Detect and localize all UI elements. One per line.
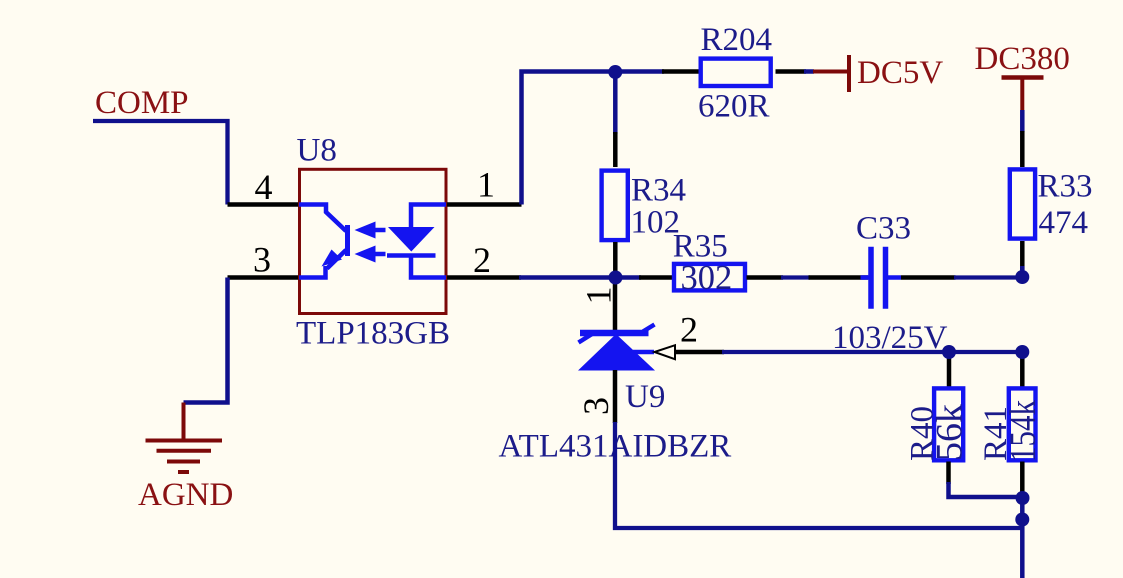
wire U9 anode pin <box>613 370 618 423</box>
svg-text:C33: C33 <box>856 211 911 247</box>
U9 reference arrow <box>655 345 676 359</box>
svg-text:302: 302 <box>681 259 733 297</box>
wire R33 bottom pin <box>1020 241 1025 270</box>
svg-text:154k: 154k <box>1003 400 1044 462</box>
power port DC380 bar <box>1002 75 1044 80</box>
U9 cathode bar left tick <box>579 334 593 343</box>
wire R41 bottom pin <box>1020 462 1025 494</box>
power port DC380 stem <box>1020 78 1024 111</box>
svg-text:AGND: AGND <box>138 477 233 513</box>
resistor R33 <box>1010 169 1035 238</box>
svg-text:56k: 56k <box>930 403 971 461</box>
capacitor C33 plate 2 <box>883 247 889 309</box>
U8 light arrow 2 shaft <box>373 252 386 257</box>
ground AGND bar3 <box>167 460 200 464</box>
wire U9 anode to bottom rail <box>615 422 1022 528</box>
wire R34 top pin link <box>613 72 618 134</box>
U9 triangle <box>578 334 655 371</box>
wire bottom vertical <box>1020 492 1025 578</box>
junction dot ref rail R41 <box>1015 345 1029 359</box>
U9 reference lead <box>633 350 654 355</box>
U8 phototransistor emitter wire <box>299 266 326 278</box>
wire U9 ref pin <box>675 350 724 355</box>
U8 phototransistor emitter <box>327 250 346 269</box>
svg-text:R34: R34 <box>631 173 686 209</box>
wire U8 pin4 stub <box>228 202 300 207</box>
resistor R40 <box>934 388 963 460</box>
ground AGND bar2 <box>157 449 212 453</box>
svg-text:1: 1 <box>579 287 619 305</box>
svg-text:U8: U8 <box>297 133 337 169</box>
svg-text:TLP183GB: TLP183GB <box>296 316 450 352</box>
shunt regulator U9 cathode bar <box>580 330 649 337</box>
wire R35 left pin <box>639 275 673 280</box>
svg-text:102: 102 <box>631 205 681 241</box>
U8 LED anode wire <box>411 205 446 229</box>
wire U8 pin3 stub <box>228 275 300 280</box>
ground AGND bar4 <box>178 470 189 474</box>
junction dot node B <box>1015 513 1029 527</box>
svg-text:1: 1 <box>477 165 495 205</box>
ground AGND bar1 <box>146 439 223 443</box>
wire R35 right pin <box>747 275 784 280</box>
wire R34 top pin <box>613 132 618 167</box>
svg-text:2: 2 <box>680 310 698 350</box>
wire R204 right pin <box>776 69 807 74</box>
ground AGND stem <box>182 403 186 440</box>
wire R41 top pin <box>1020 353 1025 391</box>
U9 cathode bar right tick <box>643 325 655 332</box>
wire R40 to node <box>949 482 1023 497</box>
wire C33 to R33 node <box>954 275 1022 279</box>
wire U8 pin1 stub <box>447 202 522 207</box>
U8 LED cathode bar <box>387 253 436 258</box>
svg-text:U9: U9 <box>625 379 665 415</box>
wire R204 left pin <box>662 69 700 74</box>
wire R34 bottom pin <box>613 242 618 278</box>
svg-text:4: 4 <box>255 167 273 207</box>
resistor R34 <box>602 171 628 241</box>
U8 light arrow 1 head <box>355 222 376 239</box>
wire DC380 to R33 <box>1020 110 1025 132</box>
svg-text:R204: R204 <box>701 22 773 58</box>
U8 phototransistor collector <box>299 205 346 232</box>
U8 light arrow 1 shaft <box>373 228 386 233</box>
wire stub to DC5V <box>804 69 814 74</box>
svg-text:DC380: DC380 <box>975 41 1070 77</box>
svg-text:474: 474 <box>1039 205 1089 241</box>
U8 phototransistor emitter arrow <box>322 250 343 267</box>
wire C33 left pin <box>809 275 869 280</box>
wire C33 right pin <box>901 275 956 280</box>
wire R40 bottom pin <box>946 462 951 485</box>
U8 light arrow 2 head <box>355 246 376 263</box>
wire R33 top pin <box>1020 131 1025 167</box>
svg-text:3: 3 <box>253 240 271 280</box>
wire COMP to U8 pin 4 <box>93 121 228 205</box>
wire ref rail <box>722 350 1022 354</box>
resistor R35 <box>674 264 745 291</box>
wire pin1 riser to top rail <box>522 72 616 205</box>
U8 LED cathode wire <box>411 256 446 278</box>
svg-text:DC5V: DC5V <box>857 55 943 91</box>
capacitor C33 pin stub left <box>861 275 869 280</box>
optocoupler U8 body <box>300 169 447 313</box>
power port DC5V lead <box>813 70 849 74</box>
wire R40 top pin <box>947 353 952 391</box>
svg-text:620R: 620R <box>698 89 770 125</box>
resistor R204 <box>701 59 771 86</box>
svg-text:R33: R33 <box>1038 169 1093 205</box>
wire top rail to R204 <box>615 69 664 74</box>
wire R33 to mid rail <box>1020 266 1025 277</box>
wire U8 pin2 stub <box>447 275 521 280</box>
U8 LED triangle <box>388 227 435 252</box>
svg-text:3: 3 <box>576 397 616 415</box>
wire R35 to C33 <box>781 275 810 279</box>
svg-text:2: 2 <box>473 240 491 280</box>
U8 phototransistor base bar <box>345 225 350 256</box>
wire pin3 to AGND <box>184 278 228 403</box>
capacitor C33 pin stub right <box>888 275 901 280</box>
wire U9 cathode pin <box>613 278 618 336</box>
junction dot mid rail right <box>1015 270 1029 284</box>
power port DC5V bar <box>847 55 851 92</box>
wire mid rail left <box>519 275 641 280</box>
junction dot mid rail left <box>609 271 623 285</box>
capacitor C33 plate 1 <box>868 247 874 309</box>
resistor R41 <box>1009 388 1036 460</box>
junction dot ref rail R40 <box>942 345 956 359</box>
junction dot node A <box>1016 491 1030 505</box>
junction dot top rail <box>608 65 622 79</box>
svg-text:COMP: COMP <box>95 85 189 121</box>
